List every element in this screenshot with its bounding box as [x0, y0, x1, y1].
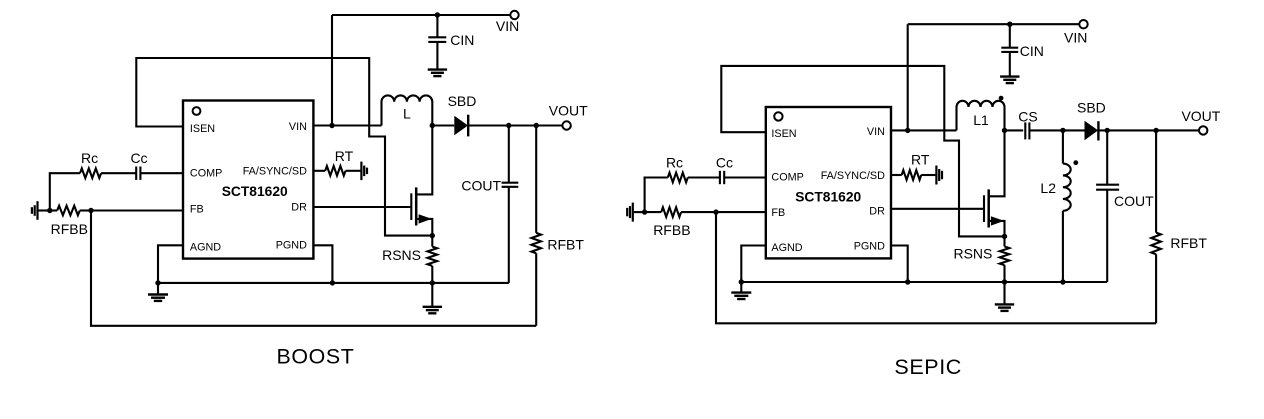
wire AGND pin to ground rail (BOOST)	[158, 245, 183, 283]
svg-text:ISEN: ISEN	[771, 128, 796, 140]
pin FB label (BOOST)	[190, 203, 204, 215]
svg-text:DR: DR	[291, 202, 307, 214]
svg-text:FA/SYNC/SD: FA/SYNC/SD	[821, 170, 885, 182]
node PGND junction (BOOST)	[330, 280, 335, 285]
inductor L (BOOST)	[382, 95, 433, 125]
resistor RT (SEPIC)	[891, 170, 935, 180]
svg-text:RFBT: RFBT	[1170, 235, 1207, 251]
svg-text:VOUT: VOUT	[1181, 108, 1220, 124]
wire ISEN loop to sense node (BOOST)	[136, 58, 432, 236]
node RSNS-ground junction (SEPIC)	[1002, 279, 1007, 284]
svg-text:AGND: AGND	[771, 242, 802, 254]
svg-text:SCT81620: SCT81620	[795, 190, 861, 205]
node RFBT junction (SEPIC)	[1153, 128, 1158, 133]
op-amp U1 IC body SCT81620 (BOOST)	[183, 101, 313, 259]
svg-text:RT: RT	[335, 148, 354, 164]
ground left of RFBB (BOOST)	[32, 201, 50, 220]
wire DR pin to gate (SEPIC)	[891, 208, 984, 210]
wire top VIN rail (SEPIC)	[908, 23, 1080, 25]
wire VIN rail drop to VIN pin (BOOST)	[331, 15, 333, 126]
svg-text:PGND: PGND	[854, 240, 885, 252]
resistor RSNS (SEPIC)	[1000, 236, 1010, 282]
resistor RFBB (SEPIC)	[645, 207, 716, 217]
label RFBB (BOOST)	[51, 221, 88, 237]
pin VIN label (BOOST)	[289, 121, 307, 133]
label L1 (SEPIC)	[973, 112, 989, 128]
node L2 bottom junction (SEPIC)	[1060, 279, 1065, 284]
svg-text:SEPIC: SEPIC	[894, 355, 962, 379]
svg-text:COMP: COMP	[771, 172, 803, 184]
node COUT junction (SEPIC)	[1105, 128, 1110, 133]
pin AGND label (SEPIC)	[771, 242, 802, 254]
wire Rc to Cc (BOOST)	[101, 172, 136, 174]
pin VIN label (SEPIC)	[867, 126, 885, 138]
svg-text:RSNS: RSNS	[953, 246, 992, 262]
svg-text:AGND: AGND	[190, 242, 221, 254]
label SCT81620 (BOOST)	[222, 184, 288, 199]
node RFBB-ground junction (SEPIC)	[642, 209, 647, 214]
inductor L1 (SEPIC)	[957, 101, 1005, 131]
label CIN (SEPIC)	[1020, 43, 1044, 59]
wire feedback bottom rail (SEPIC)	[716, 212, 1156, 323]
transistor Q1 source lead and arrow (BOOST)	[416, 214, 432, 235]
pin-1 marker circle (BOOST)	[193, 107, 201, 115]
node PGND junction (SEPIC)	[905, 279, 910, 284]
label COUT (BOOST)	[461, 178, 501, 194]
transistor Q1 channel bar (BOOST)	[415, 187, 418, 225]
svg-text:CIN: CIN	[450, 32, 474, 48]
svg-text:SBD: SBD	[1077, 100, 1106, 116]
svg-text:VOUT: VOUT	[549, 102, 588, 118]
svg-text:RFBT: RFBT	[547, 237, 584, 253]
wire diode to VOUT (SEPIC)	[1098, 129, 1199, 131]
pin DR label (SEPIC)	[869, 205, 885, 217]
svg-text:SBD: SBD	[448, 93, 477, 109]
node CIN top junction (BOOST)	[435, 12, 440, 17]
node FB junction (BOOST)	[88, 208, 93, 213]
wire COMP branch riser (SEPIC)	[645, 178, 668, 213]
svg-text:COUT: COUT	[1114, 193, 1154, 209]
diode SBD (SEPIC)	[1063, 121, 1099, 141]
ground below RSNS (SEPIC)	[995, 282, 1014, 311]
node L2 top junction (SEPIC)	[1060, 128, 1065, 133]
wire Rc to Cc (SEPIC)	[688, 176, 720, 178]
wire drain to switch node (BOOST)	[416, 126, 432, 195]
wire COMP branch riser (BOOST)	[50, 173, 80, 210]
node L1 phase dot (SEPIC)	[999, 96, 1004, 101]
svg-text:RT: RT	[911, 152, 930, 168]
pin FB label (SEPIC)	[771, 207, 785, 219]
capacitor Cc (BOOST)	[136, 167, 140, 180]
label RT (BOOST)	[335, 148, 354, 164]
svg-text:CIN: CIN	[1020, 43, 1044, 59]
pin PGND label (SEPIC)	[854, 240, 885, 252]
svg-text:FA/SYNC/SD: FA/SYNC/SD	[243, 165, 307, 177]
wire ground rail (SEPIC)	[741, 281, 1107, 283]
wire Cc to COMP pin (SEPIC)	[724, 176, 766, 178]
pin PGND label (BOOST)	[276, 239, 307, 251]
pin FA/SYNC/SD label (BOOST)	[243, 165, 307, 177]
wire FB pin (SEPIC)	[716, 211, 766, 213]
pin-1 marker circle (SEPIC)	[774, 112, 782, 120]
terminal VOUT (SEPIC)	[1199, 126, 1207, 134]
pin ISEN label (BOOST)	[190, 123, 215, 135]
ground left of RFBB (SEPIC)	[627, 203, 644, 222]
label VOUT (BOOST)	[549, 102, 588, 118]
ground below CIN (SEPIC)	[1000, 77, 1019, 84]
label RSNS (BOOST)	[382, 247, 421, 263]
pin FA/SYNC/SD label (SEPIC)	[821, 170, 885, 182]
svg-text:CS: CS	[1018, 109, 1037, 125]
ground below RSNS (BOOST)	[423, 283, 442, 313]
svg-text:FB: FB	[190, 203, 204, 215]
node AGND junction (BOOST)	[155, 280, 160, 285]
label CIN (BOOST)	[450, 32, 474, 48]
svg-text:VIN: VIN	[289, 121, 307, 133]
label Rc (SEPIC)	[666, 154, 683, 170]
capacitor CIN (BOOST)	[428, 15, 446, 70]
svg-text:RFBB: RFBB	[51, 221, 88, 237]
wire VIN pin to inductor (BOOST)	[313, 124, 381, 126]
terminal VIN (BOOST)	[510, 11, 518, 19]
resistor Rc (BOOST)	[80, 168, 101, 178]
ground below AGND (BOOST)	[148, 283, 168, 301]
node COUT junction (BOOST)	[506, 123, 511, 128]
pin DR label (BOOST)	[291, 202, 307, 214]
node VIN-pin junction (BOOST)	[329, 123, 334, 128]
terminal VIN (SEPIC)	[1079, 20, 1087, 28]
label SBD (BOOST)	[448, 93, 477, 109]
transistor Q2 source lead and arrow (SEPIC)	[989, 216, 1005, 236]
svg-text:BOOST: BOOST	[277, 345, 355, 369]
label COUT (SEPIC)	[1114, 193, 1154, 209]
wire Cc to COMP pin (BOOST)	[140, 172, 183, 174]
node source/ISEN junction (SEPIC)	[1002, 234, 1007, 239]
svg-text:VIN: VIN	[1064, 29, 1087, 45]
wire top VIN rail (BOOST)	[332, 14, 510, 16]
svg-text:L: L	[403, 106, 411, 122]
wire VIN rail drop to VIN pin (SEPIC)	[907, 24, 909, 130]
svg-text:ISEN: ISEN	[190, 123, 215, 135]
node L2 phase dot (SEPIC)	[1073, 160, 1078, 165]
wire VIN pin to inductor (SEPIC)	[891, 129, 957, 131]
ground below CIN (BOOST)	[428, 70, 447, 77]
node L1/CS/drain junction (SEPIC)	[1002, 128, 1007, 133]
svg-text:PGND: PGND	[276, 239, 307, 251]
capacitor COUT (SEPIC)	[1096, 130, 1119, 282]
node RFBB-ground junction (BOOST)	[47, 208, 52, 213]
transistor Q1 gate bar (BOOST)	[410, 193, 412, 220]
label RFBT (BOOST)	[547, 237, 584, 253]
wire diode to VOUT (BOOST)	[468, 124, 562, 126]
transistor Q2 gate bar (SEPIC)	[983, 195, 985, 222]
svg-text:DR: DR	[869, 205, 885, 217]
label L (BOOST)	[403, 106, 411, 122]
pin COMP label (SEPIC)	[771, 172, 803, 184]
label CS (SEPIC)	[1018, 109, 1037, 125]
ground right of RT (BOOST)	[361, 162, 367, 181]
resistor Rc (SEPIC)	[668, 173, 688, 183]
node RFBT junction (BOOST)	[534, 123, 539, 128]
svg-text:VIN: VIN	[867, 126, 885, 138]
label VOUT (SEPIC)	[1181, 108, 1220, 124]
svg-text:L2: L2	[1040, 180, 1056, 196]
diode SBD (BOOST)	[432, 115, 468, 137]
capacitor CS (SEPIC)	[1025, 122, 1029, 139]
label RT (SEPIC)	[911, 152, 930, 168]
label RSNS (SEPIC)	[953, 246, 992, 262]
node VIN-pin junction (SEPIC)	[905, 128, 910, 133]
inductor L2 (SEPIC)	[1063, 130, 1071, 282]
wire PGND pin to ground rail (SEPIC)	[891, 246, 908, 283]
pin AGND label (BOOST)	[190, 242, 221, 254]
capacitor COUT (BOOST)	[502, 126, 519, 283]
node CIN top junction (SEPIC)	[1007, 22, 1012, 27]
capacitor Cc (SEPIC)	[720, 171, 724, 184]
resistor RSNS (BOOST)	[428, 236, 438, 283]
label RFBB (SEPIC)	[653, 222, 690, 238]
resistor RT (BOOST)	[313, 166, 360, 176]
node source/ISEN junction (BOOST)	[430, 233, 435, 238]
op-amp U2 IC body SCT81620 (SEPIC)	[766, 107, 891, 258]
wire PGND pin to ground rail (BOOST)	[313, 245, 332, 283]
label RFBT (SEPIC)	[1170, 235, 1207, 251]
ground right of RT (SEPIC)	[936, 166, 942, 185]
wire switch node to CS (SEPIC)	[1005, 129, 1024, 131]
wire ISEN loop to sense node (SEPIC)	[721, 66, 1004, 237]
capacitor CIN (SEPIC)	[1001, 24, 1018, 76]
wire AGND pin to ground rail (SEPIC)	[741, 246, 766, 283]
svg-text:COUT: COUT	[461, 178, 501, 194]
wire DR pin to gate (BOOST)	[313, 206, 411, 208]
svg-text:L1: L1	[973, 112, 989, 128]
node AGND junction (SEPIC)	[739, 279, 744, 284]
transistor Q2 channel bar (SEPIC)	[987, 189, 990, 227]
svg-text:VIN: VIN	[496, 18, 519, 34]
label VIN terminal (SEPIC)	[1064, 29, 1087, 45]
label L2 (SEPIC)	[1040, 180, 1056, 196]
label SCT81620 (SEPIC)	[795, 190, 861, 205]
svg-text:RSNS: RSNS	[382, 247, 421, 263]
wire feedback bottom rail (BOOST)	[91, 211, 536, 326]
label SEPIC	[894, 355, 962, 379]
wire FB pin (BOOST)	[91, 209, 183, 211]
label Rc (BOOST)	[81, 150, 98, 166]
resistor RFBT (SEPIC)	[1151, 130, 1161, 323]
wire ground rail (BOOST)	[158, 282, 509, 284]
ground below AGND (SEPIC)	[731, 282, 751, 299]
label Cc (BOOST)	[130, 150, 147, 166]
svg-text:SCT81620: SCT81620	[222, 184, 288, 199]
node RSNS-ground junction (BOOST)	[430, 280, 435, 285]
svg-text:Cc: Cc	[716, 154, 733, 170]
svg-text:FB: FB	[771, 207, 785, 219]
svg-text:Rc: Rc	[81, 150, 98, 166]
pin COMP label (BOOST)	[190, 168, 222, 180]
node FB junction (SEPIC)	[713, 209, 718, 214]
label VIN terminal (BOOST)	[496, 18, 519, 34]
svg-text:COMP: COMP	[190, 168, 222, 180]
pin ISEN label (SEPIC)	[771, 128, 796, 140]
node switch/diode junction (BOOST)	[430, 123, 435, 128]
terminal VOUT (BOOST)	[562, 121, 570, 129]
label BOOST	[277, 345, 355, 369]
resistor RFBT (BOOST)	[531, 126, 541, 326]
svg-text:Rc: Rc	[666, 154, 683, 170]
svg-text:RFBB: RFBB	[653, 222, 690, 238]
svg-text:Cc: Cc	[130, 150, 147, 166]
wire drain to switch node (SEPIC)	[989, 130, 1005, 196]
label Cc (SEPIC)	[716, 154, 733, 170]
wire CS to L2/diode node (SEPIC)	[1029, 129, 1063, 131]
resistor RFBB (BOOST)	[48, 206, 91, 216]
label SBD (SEPIC)	[1077, 100, 1106, 116]
